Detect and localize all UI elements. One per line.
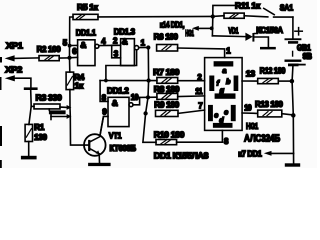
svg-text:DD1.3: DD1.3 — [114, 26, 136, 36]
node R12 rail junction — [290, 79, 295, 84]
ground bar XP2 — [24, 87, 38, 90]
ground bar bottom right — [285, 163, 300, 166]
segment e — [208, 105, 213, 121]
svg-text:R9 180: R9 180 — [154, 100, 179, 110]
wire DD1.1 out to DD1.3 in — [99, 44, 121, 46]
svg-text:КТ608Б: КТ608Б — [110, 143, 137, 153]
segment f — [209, 76, 214, 92]
svg-text:R8 180: R8 180 — [154, 84, 180, 94]
wire R10 to display pin 8 — [177, 141, 223, 143]
resistor R5 — [73, 2, 99, 20]
op-amp DD1.2 NAND gate — [107, 85, 129, 126]
wire input net vertical to R4 — [69, 46, 71, 73]
node R6 row junction — [146, 45, 150, 49]
wire stub to R3 — [31, 105, 34, 107]
svg-text:R11 1к: R11 1к — [235, 0, 261, 10]
svg-text:а: а — [222, 66, 226, 75]
svg-text:R7 180: R7 180 — [153, 67, 180, 77]
node arrow k14 junction — [210, 26, 214, 30]
node V+ junction — [211, 14, 215, 18]
pin 6 wire — [70, 56, 78, 58]
wire row8 from DD1.2 output — [140, 96, 157, 98]
segment a — [214, 61, 234, 66]
segment c — [231, 105, 236, 121]
ground bar VT1 emitter — [88, 163, 111, 166]
wire row7 — [100, 80, 157, 82]
pin 9 wire — [100, 116, 108, 135]
pin 5 wire — [70, 44, 78, 46]
node R2/pin6 junction — [67, 56, 71, 60]
svg-text:ХР2: ХР2 — [5, 65, 22, 75]
resistor R4 — [66, 72, 85, 90]
svg-text:9В: 9В — [303, 52, 313, 61]
power arrow к14 DD1, HG1 — [160, 20, 212, 38]
svg-text:10: 10 — [131, 93, 139, 102]
wire bus vertical (outputs tie) — [143, 48, 156, 143]
svg-text:с: с — [224, 107, 228, 116]
svg-text:&: & — [112, 98, 118, 108]
svg-text:АЛС324Б: АЛС324Б — [244, 134, 280, 145]
op-amp DD1.3 NAND gate — [114, 26, 136, 65]
DD1.2 output bubble pin 10 — [129, 103, 133, 107]
svg-text:R1: R1 — [34, 123, 45, 132]
wire display pin13 to R12 — [242, 80, 258, 82]
node R13 rail junction — [291, 113, 296, 118]
pin 3 tie wire — [112, 45, 121, 58]
svg-text:SA1: SA1 — [280, 3, 294, 13]
power arrow к7 DD1 — [238, 150, 293, 159]
resistor R10 — [154, 130, 185, 145]
svg-text:VT1: VT1 — [109, 131, 122, 141]
wire VT1 emitter down — [98, 154, 100, 163]
node bus row9 — [143, 111, 147, 115]
wire R4 down to VT1 base — [70, 90, 88, 146]
wire R5 left lead down to input net — [70, 17, 73, 46]
wire rail top to switch feed — [213, 5, 235, 16]
node pin5 junction — [68, 44, 72, 48]
resistor R2 — [37, 44, 70, 61]
svg-text:к7 DD1: к7 DD1 — [238, 150, 262, 159]
segment b — [234, 76, 239, 92]
svg-text:1к: 1к — [75, 81, 84, 90]
svg-text:е: е — [214, 111, 218, 120]
svg-text:&: & — [122, 38, 128, 47]
pin 8 wire — [100, 81, 108, 102]
resistor R7 — [153, 67, 180, 84]
node bus row8 — [146, 95, 150, 99]
svg-text:13: 13 — [246, 70, 256, 79]
zener diode VD1 КС156А — [212, 25, 283, 47]
edge smudge marks — [0, 57, 2, 63]
battery GB1 9В — [285, 17, 313, 81]
wire R8 to display pin 11 — [178, 95, 205, 98]
svg-text:VD1: VD1 — [228, 26, 239, 35]
segment d — [213, 123, 233, 128]
svg-text:HG1: HG1 — [185, 29, 194, 38]
svg-text:R6 180: R6 180 — [154, 32, 179, 42]
wire VT1 collector riser — [100, 117, 103, 136]
resistor R3 — [34, 92, 71, 110]
svg-text:R10 180: R10 180 — [154, 130, 185, 140]
svg-text:11: 11 — [195, 87, 203, 96]
svg-text:DD1.2: DD1.2 — [107, 85, 129, 95]
resistor R12 — [258, 66, 292, 84]
wire DD1.3 bubble down-around to pin8 row — [106, 50, 137, 81]
svg-text:к14 DD1,: к14 DD1, — [160, 20, 185, 29]
connector XP1 — [5, 41, 39, 62]
svg-text:130: 130 — [34, 133, 47, 142]
wire arrow element under R3 — [51, 113, 71, 119]
op-amp DD1.1 NAND gate — [76, 28, 97, 66]
node bus row7 — [146, 78, 150, 82]
wire minus rail down — [292, 81, 294, 163]
wire R9 to display pin 7 — [178, 110, 205, 113]
svg-text:&: & — [80, 40, 86, 50]
svg-text:КС156А: КС156А — [256, 25, 283, 35]
wire DD1.2 out up to row8 — [133, 97, 140, 104]
svg-text:R5 1к: R5 1к — [77, 2, 99, 12]
resistor R1 — [25, 123, 47, 156]
segment g — [215, 93, 236, 98]
wire display pin10 to R13 — [242, 112, 258, 114]
resistor R13 — [255, 99, 293, 117]
wire R6 to display pin 1 — [178, 48, 225, 58]
node row7 left junction — [104, 79, 108, 83]
resistor R6 — [154, 32, 179, 51]
svg-text:10: 10 — [244, 104, 252, 113]
svg-text:R13 180: R13 180 — [255, 99, 283, 109]
svg-text:HG1: HG1 — [246, 121, 259, 131]
resistor R9 — [154, 100, 179, 117]
wire DD1.3 out to node — [139, 47, 149, 49]
svg-text:R3 330: R3 330 — [36, 92, 63, 102]
transistor VT1 КТ608Б — [84, 131, 136, 156]
connector XP2 — [5, 65, 31, 88]
wire R5 right lead to V+ rail — [98, 15, 213, 18]
wire ground bar down to R3/R1 — [29, 90, 31, 125]
DD1.1 output bubble pin 4 — [95, 44, 99, 48]
svg-text:R2 100: R2 100 — [37, 44, 61, 54]
wire V+ rail down — [211, 17, 213, 36]
svg-text:DD1 К155ЛА8: DD1 К155ЛА8 — [154, 150, 209, 160]
resistor R8 — [154, 84, 180, 99]
svg-text:g: g — [219, 85, 225, 94]
pin 8 wire — [221, 130, 223, 142]
wire R7 to display pin 2 — [178, 80, 205, 82]
svg-text:ХР1: ХР1 — [6, 41, 23, 51]
seven-segment display HG1 АЛС324Б — [205, 58, 243, 131]
DD1.3 output bubble pin 1 — [135, 46, 139, 50]
bar element under R3 — [49, 109, 66, 114]
ground bar R1 — [21, 156, 37, 160]
svg-text:DD1.1: DD1.1 — [76, 28, 97, 38]
resistor R11 — [213, 0, 268, 18]
switch SA1 — [264, 3, 294, 17]
ground bar under VD1 — [260, 47, 276, 50]
svg-text:R12 180: R12 180 — [260, 66, 286, 76]
